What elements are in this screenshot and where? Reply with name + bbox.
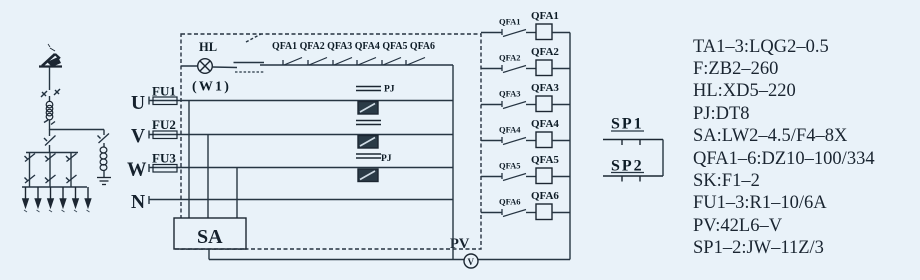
feeder column 3: [70, 153, 72, 188]
wire branch to arrester: [50, 129, 105, 131]
arrester switch blade: [98, 134, 110, 144]
wire chain: [260, 64, 453, 66]
wire lamp feed: [181, 65, 198, 67]
svg-text:QFA2: QFA2: [531, 46, 559, 58]
wire coil to junction: [49, 120, 51, 130]
svg-text:HL: HL: [199, 40, 217, 54]
svg-text:V: V: [131, 126, 145, 147]
svg-text:PJ: PJ: [384, 85, 395, 95]
wire bus N: [149, 199, 453, 201]
switch SP1: [603, 140, 663, 146]
svg-text:W: W: [127, 160, 147, 181]
wire SP1 SP2 join: [662, 140, 664, 177]
bus A: [26, 152, 78, 154]
wire tap V to SA: [207, 135, 209, 219]
wire lamp to connector: [212, 66, 237, 69]
feeder column 1: [29, 153, 31, 188]
breaker QFA2: [481, 46, 570, 76]
CT TA3: [358, 169, 378, 182]
wire fuse to switch: [49, 67, 51, 90]
drop-out fuse QL: [39, 44, 62, 67]
svg-text:PJ: PJ: [381, 154, 392, 164]
wire junction down: [49, 130, 51, 137]
svg-text:QFA6: QFA6: [499, 197, 521, 207]
wire riser left: [452, 65, 454, 260]
wire coil to ground: [103, 171, 105, 178]
svg-text:(W1): (W1): [192, 80, 231, 95]
bus B: [22, 186, 87, 188]
breaker QFA5: [481, 154, 570, 184]
feeder switches row 1: [25, 154, 77, 162]
wire bus W: [149, 167, 453, 169]
breaker QFA6: [481, 190, 570, 220]
svg-text:QFA5: QFA5: [499, 161, 521, 171]
svg-text:V: V: [468, 257, 475, 267]
switch box SA: [174, 218, 246, 249]
svg-text:FU1: FU1: [152, 84, 176, 99]
terminal tick W: [148, 164, 150, 172]
svg-text:QFA3: QFA3: [499, 89, 521, 99]
wire bus U: [149, 100, 453, 102]
CT TA3 secondary: [356, 154, 381, 158]
lamp HL: [198, 59, 213, 74]
arrester F coil: [100, 147, 107, 171]
SP2 underline: [611, 172, 644, 174]
fuse FU3: [153, 165, 177, 173]
feeder column 2: [49, 153, 51, 188]
wire bus V: [149, 134, 453, 136]
voltmeter PV: [464, 254, 478, 268]
isolator ticks: [41, 89, 60, 97]
svg-text:QFA4: QFA4: [531, 118, 559, 130]
panel dashed border: [181, 34, 481, 249]
feeder switches row 2: [25, 175, 77, 183]
CT TA2: [358, 136, 378, 149]
svg-text:QFA1 QFA2 QFA3 QFA4 QFA5 QFA6: QFA1 QFA2 QFA3 QFA4 QFA5 QFA6: [272, 40, 435, 52]
wire tap W to SA: [236, 168, 238, 218]
svg-text:FU3: FU3: [152, 151, 176, 166]
svg-text:QFA5: QFA5: [531, 154, 559, 166]
switch main blade: [44, 136, 56, 146]
arrester F branch wire: [103, 130, 105, 136]
svg-text:QFA2: QFA2: [499, 53, 521, 63]
CT TA1 secondary: [356, 87, 381, 91]
wire to arrester coil: [103, 143, 105, 147]
svg-text:QFA3: QFA3: [531, 82, 559, 94]
svg-text:QFA6: QFA6: [531, 190, 559, 202]
svg-text:SA: SA: [197, 226, 223, 248]
ground: [97, 178, 111, 185]
svg-text:FU2: FU2: [152, 117, 176, 132]
wire SA down: [208, 249, 210, 260]
SP1 underline: [611, 130, 644, 132]
svg-text:QFA1: QFA1: [499, 17, 521, 27]
svg-text:QFA1: QFA1: [531, 10, 559, 22]
wire switch to bus A: [49, 145, 51, 153]
CT TA1: [358, 102, 378, 115]
fuse FU1: [153, 97, 177, 105]
border leader: [246, 34, 261, 42]
outgoing arrows: [23, 187, 91, 207]
arrow tail dots: [24, 210, 90, 212]
connector SK upper: [234, 62, 265, 64]
transformer secondary ticks: [44, 120, 55, 125]
svg-text:N: N: [131, 192, 145, 213]
breaker QFA4: [481, 118, 570, 148]
wire bottom meter: [209, 259, 570, 261]
wire riser right outgoing bus: [569, 33, 571, 260]
wire switch to coil: [49, 96, 51, 102]
fuse FU2: [153, 131, 177, 139]
wire tap U to SA: [188, 101, 190, 219]
svg-text:SP1: SP1: [611, 116, 644, 133]
breaker QFA1: [481, 10, 570, 40]
terminal tick V: [148, 131, 150, 139]
svg-text:U: U: [131, 93, 145, 114]
breaker QFA3: [481, 82, 570, 112]
terminal tick N: [148, 196, 150, 204]
terminal tick U: [148, 97, 150, 105]
CT TA2 secondary: [356, 121, 381, 125]
connector SK lower: [235, 71, 265, 73]
switch SP2: [603, 176, 663, 182]
transformer T primary coil: [46, 101, 53, 120]
svg-text:QFA4: QFA4: [499, 125, 521, 135]
chain contacts QFA aux: [283, 58, 425, 66]
